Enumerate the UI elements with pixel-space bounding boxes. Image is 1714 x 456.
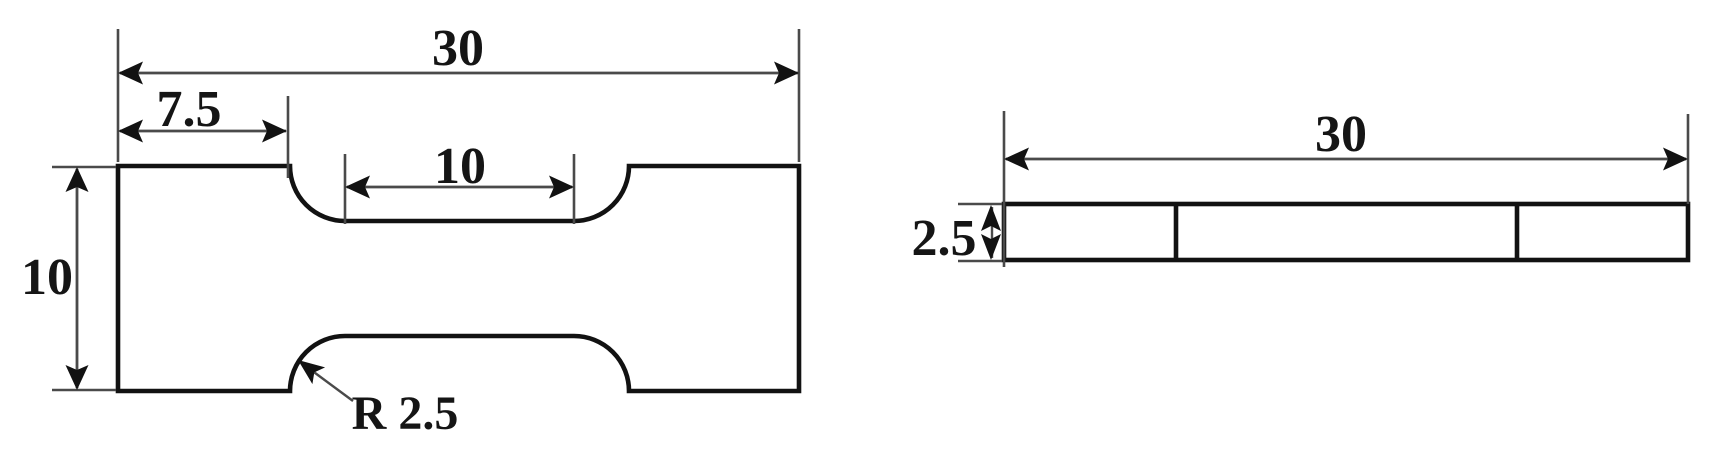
divider line 1 (right figure) — [1174, 204, 1179, 260]
extension line gauge right (x=574, for 10 dim) — [573, 154, 576, 224]
arrowhead left 10 bottom — [66, 365, 89, 390]
arrowhead 30 left — [118, 62, 143, 85]
arrowhead gauge 10 right — [549, 176, 574, 199]
dimension line 7.5 — [120, 130, 286, 133]
extension line left (x=118, for 30 and 7.5 dims) — [117, 29, 120, 162]
arrowhead gauge 10 left — [345, 176, 370, 199]
dimension line 30 (left figure) — [120, 72, 798, 75]
arrowhead 2.5 top — [981, 205, 1001, 231]
extension line bottom-left horizontal (y=390, for left 10 dim) — [52, 389, 116, 391]
svg-text:10: 10 — [21, 249, 73, 306]
extension line 2.5 bottom (y=261) — [958, 260, 1002, 262]
svg-text:10: 10 — [434, 138, 486, 195]
extension line right-figure right (x=1688) — [1687, 114, 1690, 204]
arrowhead 2.5 bottom — [981, 234, 1001, 260]
dimension line 2.5 (vertical, short) — [991, 207, 993, 258]
arrowhead right 30 left — [1004, 148, 1029, 171]
arrowhead 7.5 left — [118, 120, 143, 143]
extension line right (x=799, for 30 dim) — [798, 29, 801, 162]
svg-text:30: 30 — [432, 20, 484, 77]
dimension line 10 (left vertical) — [76, 169, 79, 388]
leader line R 2.5 — [314, 372, 353, 401]
extension line top-left horizontal (y=167, for left 10 dim) — [52, 166, 116, 168]
svg-text:2.5: 2.5 — [912, 210, 977, 267]
extension line 2.5 top (y=204) — [958, 203, 1002, 205]
dimension line 10 (gauge) — [347, 186, 572, 189]
arrowhead 7.5 right — [262, 120, 287, 143]
svg-text:7.5: 7.5 — [157, 81, 222, 138]
arrowhead R 2.5 — [298, 360, 325, 384]
svg-text:R 2.5: R 2.5 — [352, 387, 459, 440]
extension line right-figure left (x=1004) — [1003, 111, 1006, 267]
arrowhead right 30 right — [1663, 148, 1688, 171]
dimension line 30 (right figure) — [1006, 158, 1686, 161]
divider line 2 (right figure) — [1515, 204, 1520, 260]
arrowhead 30 right — [774, 62, 799, 85]
extension line shoulder (x=288, for 7.5 dim) — [287, 96, 290, 178]
svg-text:30: 30 — [1315, 106, 1367, 163]
side-view rectangle (right figure) — [1004, 204, 1688, 260]
extension line gauge left (x=345, for 10 dim) — [344, 154, 347, 224]
specimen outline (left figure, dog-bone top view) — [118, 166, 799, 391]
arrowhead left 10 top — [66, 167, 89, 192]
